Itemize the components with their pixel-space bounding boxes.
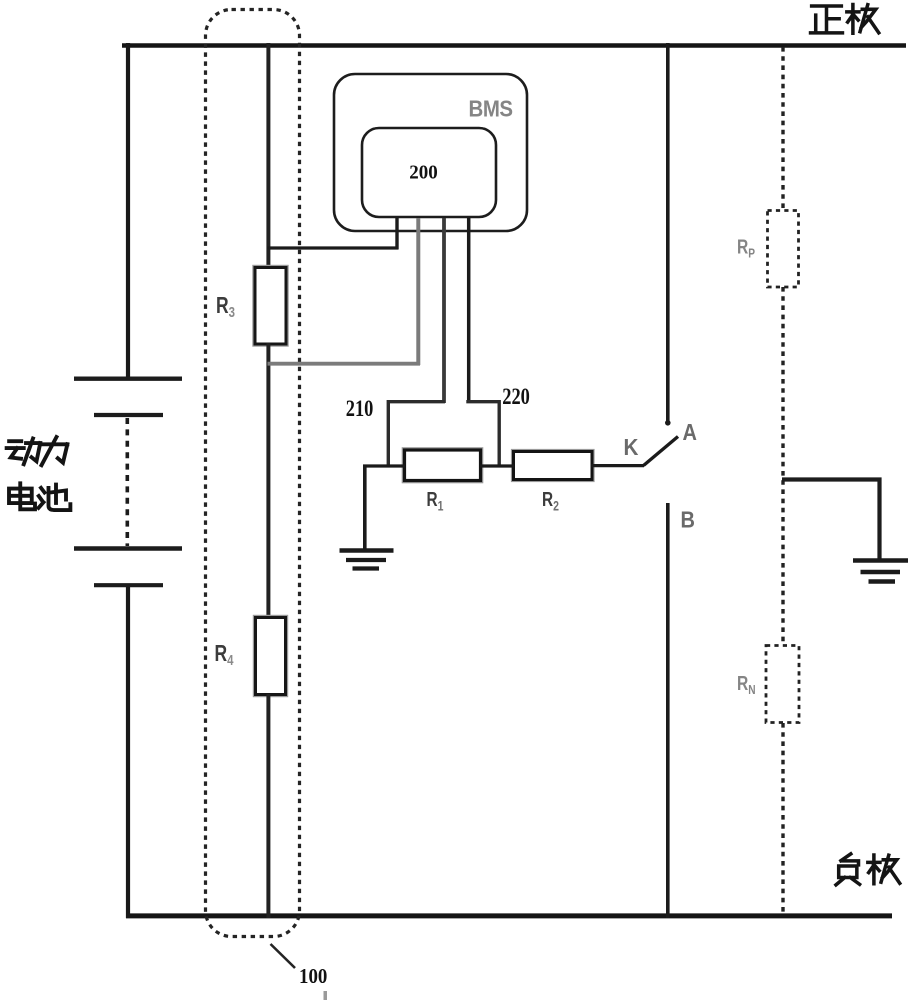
wire R2 to switch xyxy=(591,464,644,467)
insulation dashed wire middle xyxy=(781,287,784,646)
ground stub left xyxy=(363,465,367,552)
label B xyxy=(681,506,695,533)
ground symbol right xyxy=(853,561,908,582)
switch K blade xyxy=(644,437,679,466)
resistor R2 xyxy=(514,452,593,480)
BMS pin3 wire xyxy=(442,218,446,403)
battery plate long lower xyxy=(74,546,182,550)
label Rn xyxy=(737,672,756,697)
label 200 xyxy=(409,162,437,184)
dashed enclosure 100 xyxy=(206,10,300,937)
label 210 xyxy=(346,395,374,422)
wire sampling branch middle xyxy=(266,343,270,618)
wire insulation node to right ground xyxy=(782,480,880,560)
wire bottom negative bus xyxy=(126,913,892,918)
BMS pin2 wire gray xyxy=(416,218,420,365)
label dianchi battery cell xyxy=(9,483,70,510)
resistor R3 xyxy=(255,268,286,345)
resistor R4 xyxy=(256,618,286,695)
svg-text:100: 100 xyxy=(299,965,327,988)
resistor Rp dashed xyxy=(768,211,799,288)
sampling unit bracket 210/220 xyxy=(388,402,499,467)
leader line for 100 xyxy=(271,944,296,968)
label 100 xyxy=(299,965,327,988)
wire R1 to R2 xyxy=(480,464,514,467)
wire left branch lower xyxy=(126,587,130,918)
svg-text:B: B xyxy=(681,506,695,533)
label K xyxy=(624,434,639,461)
switch contact A dot xyxy=(665,420,671,426)
svg-text:K: K xyxy=(624,434,639,461)
wire positive link upper (to A) xyxy=(666,43,670,421)
label dongli power xyxy=(7,437,68,465)
battery plate long top xyxy=(74,377,182,381)
wire node to BMS pin1 xyxy=(268,246,399,249)
wire left branch upper xyxy=(126,43,130,379)
label R3 xyxy=(216,294,235,321)
svg-text:200: 200 xyxy=(409,162,437,184)
battery plate short bottom xyxy=(94,583,163,587)
label R1 xyxy=(427,488,444,514)
wire ground stub to R1 xyxy=(363,464,405,467)
BMS outer box xyxy=(334,74,527,231)
label BMS xyxy=(469,95,513,122)
battery plate short upper xyxy=(94,413,163,417)
wire top positive bus xyxy=(122,43,906,48)
svg-text:220: 220 xyxy=(502,383,530,410)
label A xyxy=(683,418,698,445)
caption artifact dots xyxy=(324,991,328,1000)
resistor R1 xyxy=(405,450,481,481)
insulation dashed wire top xyxy=(781,47,784,211)
label Rp xyxy=(737,236,755,261)
label R2 xyxy=(542,488,559,514)
resistor Rn dashed xyxy=(766,646,799,723)
label fuji negative pole xyxy=(836,854,900,885)
BMS pin1 wire xyxy=(395,218,398,250)
label 220 xyxy=(502,383,530,410)
ground symbol left xyxy=(340,551,394,569)
wire sampling branch bottom xyxy=(266,694,270,918)
controller 200 box xyxy=(362,128,496,217)
BMS pin4 wire xyxy=(467,218,471,403)
label zhengji positive pole xyxy=(811,4,879,33)
label R4 xyxy=(215,642,234,669)
svg-text:BMS: BMS xyxy=(469,95,513,122)
wire sampling branch top xyxy=(266,43,270,269)
battery dashed middle xyxy=(126,418,130,546)
wire node to BMS pin2 gray xyxy=(268,362,421,366)
wire negative link lower (from B) xyxy=(666,503,670,918)
insulation dashed wire bottom xyxy=(781,723,784,914)
svg-text:A: A xyxy=(683,418,698,445)
svg-text:210: 210 xyxy=(346,395,374,422)
